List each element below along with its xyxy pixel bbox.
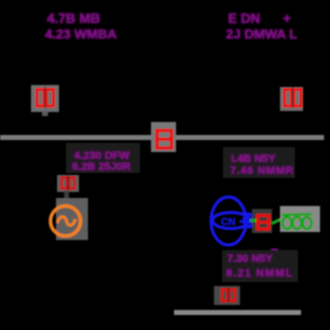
node: gray pad on baseline center xyxy=(151,122,176,152)
svg-text:7.46 NMMR: 7.46 NMMR xyxy=(230,165,294,177)
node: gray pad behind right marker xyxy=(280,87,303,111)
node: gray pad behind left marker xyxy=(31,85,59,112)
capacitor small left marker 00 (red) xyxy=(62,178,75,189)
svg-text:E DN: E DN xyxy=(228,11,260,26)
node: small purple tick above bottom-right text xyxy=(271,249,278,252)
svg-text:7.30 N5Y: 7.30 N5Y xyxy=(227,253,274,265)
svg-text:6.2B 25J0R: 6.2B 25J0R xyxy=(72,161,131,173)
wire: green slanted dash after red B xyxy=(272,219,282,224)
wire: notch between small marker digits xyxy=(67,176,68,191)
source: orange circle with sine xyxy=(51,206,81,236)
svg-text:CN: CN xyxy=(221,217,235,228)
resistor right marker 00 (red) xyxy=(285,90,302,107)
node: gray pad behind small left marker xyxy=(57,175,79,192)
capacitor bottom marker 00 (red) xyxy=(222,290,235,302)
wire: stub from small marker to circle xyxy=(64,191,69,199)
resistor left marker 00 (red) xyxy=(37,90,54,107)
svg-text:8.21 NMML: 8.21 NMML xyxy=(226,268,293,280)
wire: bottom gray line xyxy=(174,310,301,315)
node: gray pad behind green text xyxy=(280,206,320,232)
node: dark pad behind red B xyxy=(252,209,272,233)
annotation: blue big circle xyxy=(211,197,253,245)
wire: notch between left marker digits xyxy=(45,87,46,108)
annotation: blue small right circle xyxy=(244,214,253,227)
wire: green dash between blue circle and red B xyxy=(250,219,256,222)
label: green OOO text xyxy=(282,214,312,229)
node: blue dot inside ellipse xyxy=(239,220,242,223)
wire: notch between right marker digits xyxy=(292,87,293,108)
svg-text:2J DMWA L: 2J DMWA L xyxy=(226,27,297,42)
svg-text:4.23 WMBA: 4.23 WMBA xyxy=(45,27,117,42)
node: gray pad behind orange circle xyxy=(56,198,88,240)
component: red B marker xyxy=(258,216,270,230)
node: faint pad behind bottom-right text xyxy=(222,250,298,282)
node: faint pad behind mid-right text xyxy=(223,147,295,178)
component center marker 8 (red) xyxy=(157,131,172,149)
svg-text:+: + xyxy=(283,11,291,26)
wire: main horizontal gray baseline xyxy=(0,135,324,140)
svg-text:4.7B MB: 4.7B MB xyxy=(47,11,101,26)
node: gray pad behind bottom marker xyxy=(214,286,240,305)
wire: notch between bottom marker digits xyxy=(228,288,229,303)
svg-text:I.4B N5Y: I.4B N5Y xyxy=(231,153,276,165)
node: faint pad behind mid-left text xyxy=(66,143,140,173)
annotation: blue inner horizontal ellipse xyxy=(213,213,250,229)
